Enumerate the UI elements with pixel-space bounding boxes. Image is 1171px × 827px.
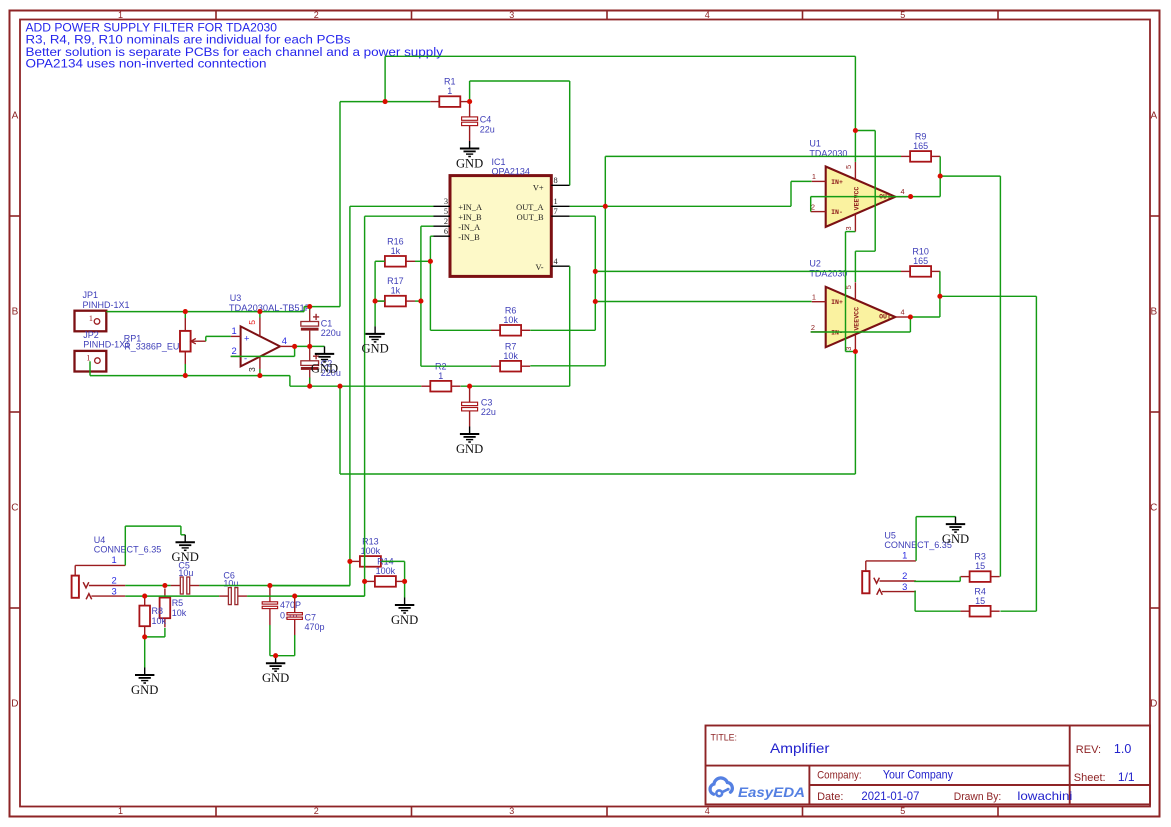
svg-text:22u: 22u [480,124,495,134]
svg-text:JP1: JP1 [83,290,99,300]
svg-text:3: 3 [444,197,448,206]
wire U5 pin3 to R4 [915,591,960,612]
junction dot C2 bottom [307,384,312,389]
op-amp IC1 OPA2134 body [450,176,551,277]
svg-text:1: 1 [447,86,452,96]
label JP1 [83,290,130,310]
svg-text:1: 1 [118,10,123,20]
junction dot R16 right [428,259,433,264]
title block TITLE text [711,733,830,757]
frame row ticks right [1150,216,1160,608]
resistor R13-body [351,537,390,567]
svg-text:Date:: Date: [817,791,843,803]
svg-text:2: 2 [811,203,815,212]
svg-text:3: 3 [247,367,257,372]
svg-text:C3: C3 [481,397,493,407]
wire R14 right node to GND [404,581,406,597]
label JP2 [83,330,130,350]
svg-text:1: 1 [86,352,90,362]
wire C1 top stem green [309,307,311,310]
svg-text:U5: U5 [884,530,896,540]
junction dot C1 C2 mid [307,344,312,349]
label U3 [229,293,311,313]
connector JP1 PINHD-1X1 [75,311,107,332]
junction dot U3 pin3 [257,373,262,378]
capacitor C7 [287,613,302,620]
label U1 [809,138,847,158]
svg-text:GND: GND [311,362,338,376]
svg-text:Your Company: Your Company [883,768,953,782]
svg-text:JP2: JP2 [83,330,99,340]
svg-text:IN+: IN+ [831,179,843,186]
svg-text:15: 15 [975,561,985,571]
svg-text:Sheet:: Sheet: [1074,772,1106,784]
capacitor C7 with leads [294,596,296,635]
wire U2 OUT to R10 right node [910,271,940,317]
capacitor C1 [301,314,319,331]
wire C6 to input node B [247,595,365,597]
svg-text:5: 5 [444,207,448,216]
svg-text:R6: R6 [505,305,517,315]
wire OUT_B to R10 left [595,270,901,272]
junction dot VEE branch [337,384,342,389]
svg-text:10k: 10k [503,315,518,325]
resistor R3-body [961,552,1000,582]
junction dot R5 top [162,583,167,588]
label U4 pins [112,554,117,597]
ground GND at U5 [942,517,969,546]
wire OUT_A column to R9 and R7 right [530,156,901,365]
svg-text:4: 4 [900,307,904,316]
IC1 pin 8 [551,176,569,185]
label C4 [480,115,495,135]
wire U3 pin3 to bus [259,369,261,376]
junction dot U2 VEE [853,349,858,354]
resistor R10-body [901,247,940,277]
svg-text:3: 3 [509,806,514,816]
svg-text:C: C [1150,503,1157,514]
wire JP2 bus [90,361,290,375]
wire R16 right to pin6 column [415,260,430,262]
resistor R14-body [366,557,405,587]
svg-text:Amplifier: Amplifier [770,740,830,756]
svg-text:R16: R16 [387,236,404,246]
wire U4 pin1 to GND [125,526,185,565]
wire 470P and C7 bottoms to GND [270,625,295,656]
svg-text:1k: 1k [391,246,401,256]
svg-text:10k: 10k [503,351,518,361]
svg-text:U1: U1 [809,138,821,148]
wire RP1 bottom to bus [184,364,186,376]
svg-text:GND: GND [391,613,418,627]
svg-text:OUT: OUT [879,314,891,321]
svg-text:lowachini: lowachini [1017,789,1072,803]
label C3 [481,397,496,417]
wire R17 right to pin2 column [415,300,421,302]
resistor R8-body [139,597,166,636]
wire U2 output node to R4 column [940,296,1037,611]
wire IC1 pin2 -IN_A to R17 and R7 [421,226,491,366]
junction dot OUT_B R10 [593,269,598,274]
wire JP1 row dots to U3 pin5 and RP1 [185,312,260,318]
wire R4 right to U2 column [1000,610,1036,612]
potentiometer RP1 [124,318,206,364]
svg-text:2: 2 [314,10,319,20]
svg-text:3: 3 [844,226,853,230]
svg-text:1: 1 [812,293,816,302]
junction dot C1 top [307,304,312,309]
svg-text:A: A [1150,111,1157,122]
junction dot OUT_B U2 IN+ [593,299,598,304]
title block outline [706,726,1151,805]
svg-text:C: C [11,503,18,514]
svg-text:470P: 470P [280,600,301,610]
capacitor 470P [262,602,277,609]
junction dot R13 left [347,559,352,564]
label U5 [884,530,952,550]
svg-text:4: 4 [705,10,710,20]
svg-text:OPA2134: OPA2134 [492,166,530,176]
title block Company row [817,768,953,782]
svg-text:-IN_A: -IN_A [458,223,480,232]
svg-text:220u: 220u [321,328,341,338]
svg-text:4: 4 [282,335,287,346]
junction dot U1 VCC [853,128,858,133]
svg-text:2: 2 [444,217,448,226]
resistor R9-body [901,132,940,162]
resistor R5-body [160,589,187,628]
svg-text:3: 3 [112,586,117,597]
wire U5 pin2 to R3 [914,577,960,582]
svg-text:CONNECT_6.35: CONNECT_6.35 [94,545,162,555]
svg-text:TITLE:: TITLE: [711,733,737,743]
capacitor C5 with leads [171,585,200,587]
wire U1 pin3 VEE to U2 pin3 [846,232,856,352]
label U4 [94,535,162,555]
svg-text:5: 5 [900,10,905,20]
wire R5 bottom to R8 bottom [145,628,165,637]
junction dot R5 R8 bottom [142,634,147,639]
junction dot V+ at R1 left [383,99,388,104]
frame row labels left [11,111,18,710]
svg-text:1: 1 [902,550,907,561]
connector JP2 PINHD-1X1 [75,351,107,372]
op-amp U3 TDA2030AL-TB51F [231,318,295,373]
svg-text:GND: GND [131,683,158,697]
svg-text:V+: V+ [533,184,544,193]
svg-text:U2: U2 [809,259,821,269]
capacitor C5 [180,577,189,594]
svg-text:IN-: IN- [831,329,843,336]
svg-text:R10: R10 [912,247,929,257]
wire OUT_B pin7 column to R6 right [530,216,595,330]
junction dot U3 OUT [292,344,297,349]
svg-text:1/1: 1/1 [1118,770,1135,784]
resistor R16-body [376,236,415,266]
svg-text:100k: 100k [361,546,381,556]
svg-text:5: 5 [900,806,905,816]
svg-text:VEEVCC: VEEVCC [854,307,861,331]
svg-text:A: A [12,111,19,122]
junction dot R8 top [142,594,147,599]
resistor R7-body [491,341,530,371]
svg-text:5: 5 [844,165,853,169]
svg-text:D: D [1150,699,1157,710]
resistor R17-body [376,276,415,306]
wire U1 VCC to U2 VCC pin5 [855,131,875,283]
junction dot R14 left [362,579,367,584]
svg-text:D: D [11,699,18,710]
svg-text:-IN_B: -IN_B [458,233,480,242]
wire OUT_B to U2 IN+ pin1 [595,301,811,303]
wire R16 R17 left to GND [375,261,385,326]
wire U5 pin1 to GND [916,517,955,561]
wire negative supply bus V- [290,376,421,387]
svg-text:2: 2 [232,345,237,356]
ground GND at R16 R17 [361,326,388,355]
junction dot R1 right C4 [467,99,472,104]
svg-text:GND: GND [456,156,483,170]
junction dot C7 top [292,594,297,599]
svg-text:GND: GND [262,671,289,685]
svg-text:1: 1 [812,172,816,181]
wire U2 feedback OUT to IN- [811,317,911,332]
wire IC1 pin5 +IN_B to input node B [295,216,434,596]
svg-text:R7: R7 [505,341,517,351]
svg-text:165: 165 [913,141,928,151]
svg-text:V-: V- [536,263,544,272]
label C7 [305,613,325,633]
IC1 pin 5 [434,207,451,216]
svg-text:+: + [244,333,250,344]
capacitor C4 with leads [469,102,471,141]
frame row ticks left [10,216,21,608]
label C2 [321,358,341,378]
IC1 pin names [458,184,544,272]
svg-text:7: 7 [554,207,558,216]
svg-text:R3: R3 [974,552,986,562]
svg-text:1: 1 [438,371,443,381]
label C6 [223,571,238,589]
svg-text:R4: R4 [974,586,986,596]
svg-text:+IN_A: +IN_A [458,203,482,212]
svg-text:15: 15 [975,596,985,606]
wire U1 feedback OUT to IN- [811,197,911,212]
svg-text:3: 3 [509,10,514,20]
svg-text:6: 6 [444,227,448,236]
junction dot U1 OUT [908,194,913,199]
svg-text:GND: GND [172,550,199,564]
label 470P [280,600,301,621]
svg-text:1: 1 [112,554,117,565]
ground GND at R8 [131,668,158,697]
ground GND at input caps [262,656,289,685]
EasyEDA logo [710,778,805,801]
wire R2 right to C3 and IC1 pin4 V- [461,266,570,386]
svg-text:B: B [1150,307,1157,318]
wire U1 VCC pin5 [854,131,856,162]
svg-text:Drawn By:: Drawn By: [954,791,1002,803]
wire RP1 wiper to U3 pin1 [206,336,231,341]
ground GND at R13 R14 [391,598,418,627]
svg-text:PINHD-1X1: PINHD-1X1 [83,340,130,350]
junction dot R16 R17 left [373,299,378,304]
junction dot R9 right [938,174,943,179]
svg-text:1: 1 [554,197,558,206]
svg-text:5: 5 [247,320,257,325]
svg-text:R9: R9 [915,132,927,142]
IC1 pin 6 [434,227,451,236]
IC1 pin 4 [551,257,569,266]
wire U4 pin3 line to C6 [125,595,219,597]
svg-text:B: B [12,307,19,318]
wire U3 OUT node to C1 C2 midpoint and GND [295,345,325,347]
svg-text:IN+: IN+ [831,299,843,306]
capacitor C1 with leads [309,307,311,347]
svg-text:4: 4 [705,806,710,816]
junction dot U3 pin5 [257,309,262,314]
capacitor C4 [462,117,478,126]
svg-text:OUT_A: OUT_A [516,203,543,212]
svg-text:OPA2134 uses non-inverted conn: OPA2134 uses non-inverted conntection [26,57,267,71]
svg-text:10k: 10k [152,616,167,626]
connector U5 CONNECT_6.35 [862,561,916,595]
svg-text:10u: 10u [223,578,238,588]
junction dot R14 right [402,579,407,584]
wire IC1 pin6 -IN_B to R16 and R6 [430,236,491,330]
svg-text:Company:: Company: [817,770,862,782]
label U5 pins [902,550,907,593]
svg-text:TDA2030: TDA2030 [809,269,847,279]
resistor R6-body [491,305,530,335]
svg-text:3: 3 [902,581,907,592]
capacitor C6 [228,588,237,605]
resistor R1-body [430,77,469,107]
svg-text:OUT_B: OUT_B [517,213,544,222]
junction dot 470P top [267,583,272,588]
wire V+ riser to TDA2030 VCC rail [385,56,855,130]
IC1 pin 7 [551,207,569,216]
svg-text:-: - [244,353,247,364]
wire V+ top from R1 junction to C1 column [106,102,430,312]
junction dot R2 right C3 [467,384,472,389]
svg-text:2: 2 [811,323,815,332]
ground GND at C3 [456,427,483,456]
svg-text:R1: R1 [444,77,456,87]
capacitor C3 [462,402,478,411]
op-amp U1 TDA2030 [811,162,911,232]
connector U4 CONNECT_6.35 [72,565,126,599]
capacitor 470P with leads [269,586,271,625]
junction dot OUT_A [603,204,608,209]
frame row labels right [1150,111,1157,710]
svg-text:R17: R17 [387,276,404,286]
wire U1 OUT to R9 right node [911,156,941,196]
capacitor C3 with leads [469,386,471,426]
ground GND at C4 [456,141,483,170]
svg-text:1k: 1k [391,286,401,296]
svg-text:2021-01-07: 2021-01-07 [861,789,919,803]
svg-text:C4: C4 [480,115,492,125]
annotation notes top-left [26,20,444,70]
svg-text:U4: U4 [94,535,106,545]
svg-text:EasyEDA: EasyEDA [738,785,805,801]
junction dot R10 right [937,294,942,299]
resistor R2-body [421,361,460,391]
svg-text:1.0: 1.0 [1114,742,1131,756]
wire C5 to input node A [199,585,350,587]
wire U3 feedback OUT to pin2 [231,346,295,356]
label C5 [178,561,193,579]
junction dot caps GND [273,653,278,658]
svg-text:8: 8 [554,176,558,185]
capacitor C2 [301,353,319,370]
svg-text:100k: 100k [376,566,396,576]
label C1 [321,318,341,338]
wire U4 pin2 line to C5 [125,585,170,587]
IC1 pin 1 [551,197,569,206]
capacitor C6 with leads [219,595,247,597]
svg-text:1: 1 [89,313,93,323]
frame column ticks top [216,11,998,20]
svg-text:2: 2 [902,570,907,581]
junction dot U2 OUT [908,314,913,319]
junction dot RP1 bottom [183,373,188,378]
svg-text:VEEVCC: VEEVCC [854,187,861,211]
svg-text:2: 2 [314,806,319,816]
frame column labels top [118,10,905,20]
svg-text:U3: U3 [230,293,242,303]
svg-text:10k: 10k [172,608,187,618]
ground GND at C1 C2 midpoint [311,346,338,375]
wire R8 bottom to GND [144,637,146,668]
svg-text:GND: GND [361,342,388,356]
svg-text:+IN_B: +IN_B [458,213,482,222]
frame column ticks bottom [216,807,998,817]
title block Date row [817,789,1072,803]
svg-text:R5: R5 [172,598,184,608]
svg-text:C1: C1 [321,318,333,328]
svg-text:165: 165 [913,256,928,266]
title block Sheet [1074,770,1135,784]
svg-text:R_3386P_EU: R_3386P_EU [124,342,179,352]
svg-text:2: 2 [112,574,117,585]
svg-text:4: 4 [900,187,904,196]
svg-text:REV:: REV: [1076,744,1101,756]
svg-text:1: 1 [118,806,123,816]
label U2 [809,259,847,279]
svg-text:1: 1 [232,325,237,336]
svg-text:GND: GND [456,442,483,456]
svg-text:PINHD-1X1: PINHD-1X1 [83,300,130,310]
junction dot RP1 top [183,309,188,314]
wire C2 bottom to V- bus [309,378,311,387]
ground GND at U4 [172,535,199,564]
capacitor C2 with leads [309,346,311,386]
resistor R4-body [961,586,1000,616]
wire IC1 pin3 +IN_A to input node A [270,206,434,585]
svg-text:10u: 10u [178,568,193,578]
op-amp U2 TDA2030 [811,282,911,352]
svg-text:C7: C7 [305,613,317,623]
wire VEE rail to negative supply bus [340,352,855,475]
junction dot R17 right [418,299,423,304]
wire R13 right to R14 right [381,561,404,581]
title block REV [1076,742,1132,756]
wire R1 to IC1 pin8 V+ [470,81,570,185]
frame column labels bottom [118,806,905,816]
wire OUT_A pin1 to U1 IN+ [570,181,812,206]
